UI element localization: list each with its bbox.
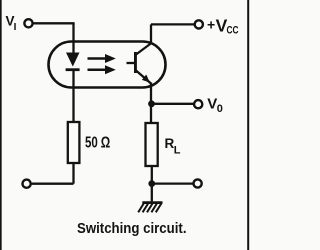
junction node ground [148,180,155,187]
wire LED cathode vertical [72,71,74,123]
wire below RL [151,166,153,184]
svg-text:Switching circuit.: Switching circuit. [77,221,187,237]
svg-text:I: I [14,22,17,33]
wire bottom right horizontal [152,182,194,184]
terminal VI [24,19,32,27]
terminal bottom left [23,180,31,188]
wire bottom left horizontal [31,183,74,185]
svg-text:Ω: Ω [101,135,111,152]
light arrow 2 [88,69,107,72]
optocoupler U1 envelope [49,42,166,88]
wire emitter vertical [150,83,152,124]
resistor R1 50ohm [68,122,80,163]
svg-text:L: L [174,145,181,157]
wire collector vertical [150,24,152,44]
wire VCC horizontal [151,23,195,25]
svg-text:0: 0 [217,103,223,115]
resistor RL [146,123,158,166]
svg-text:+: + [207,16,215,32]
ground [138,184,162,213]
svg-text:50: 50 [85,135,98,152]
LED D1 [66,53,80,72]
wire VO horizontal [152,103,195,105]
terminal VO [194,100,202,108]
wire left vertical top [72,23,74,54]
wire below 50ohm [72,163,74,184]
terminal +VCC [195,20,203,28]
terminal bottom right [194,179,202,187]
svg-text:CC: CC [227,24,239,36]
light arrow 1 [88,57,107,60]
junction node VO [148,100,155,107]
wire VI horizontal [33,22,75,24]
phototransistor Q1 [127,44,152,84]
